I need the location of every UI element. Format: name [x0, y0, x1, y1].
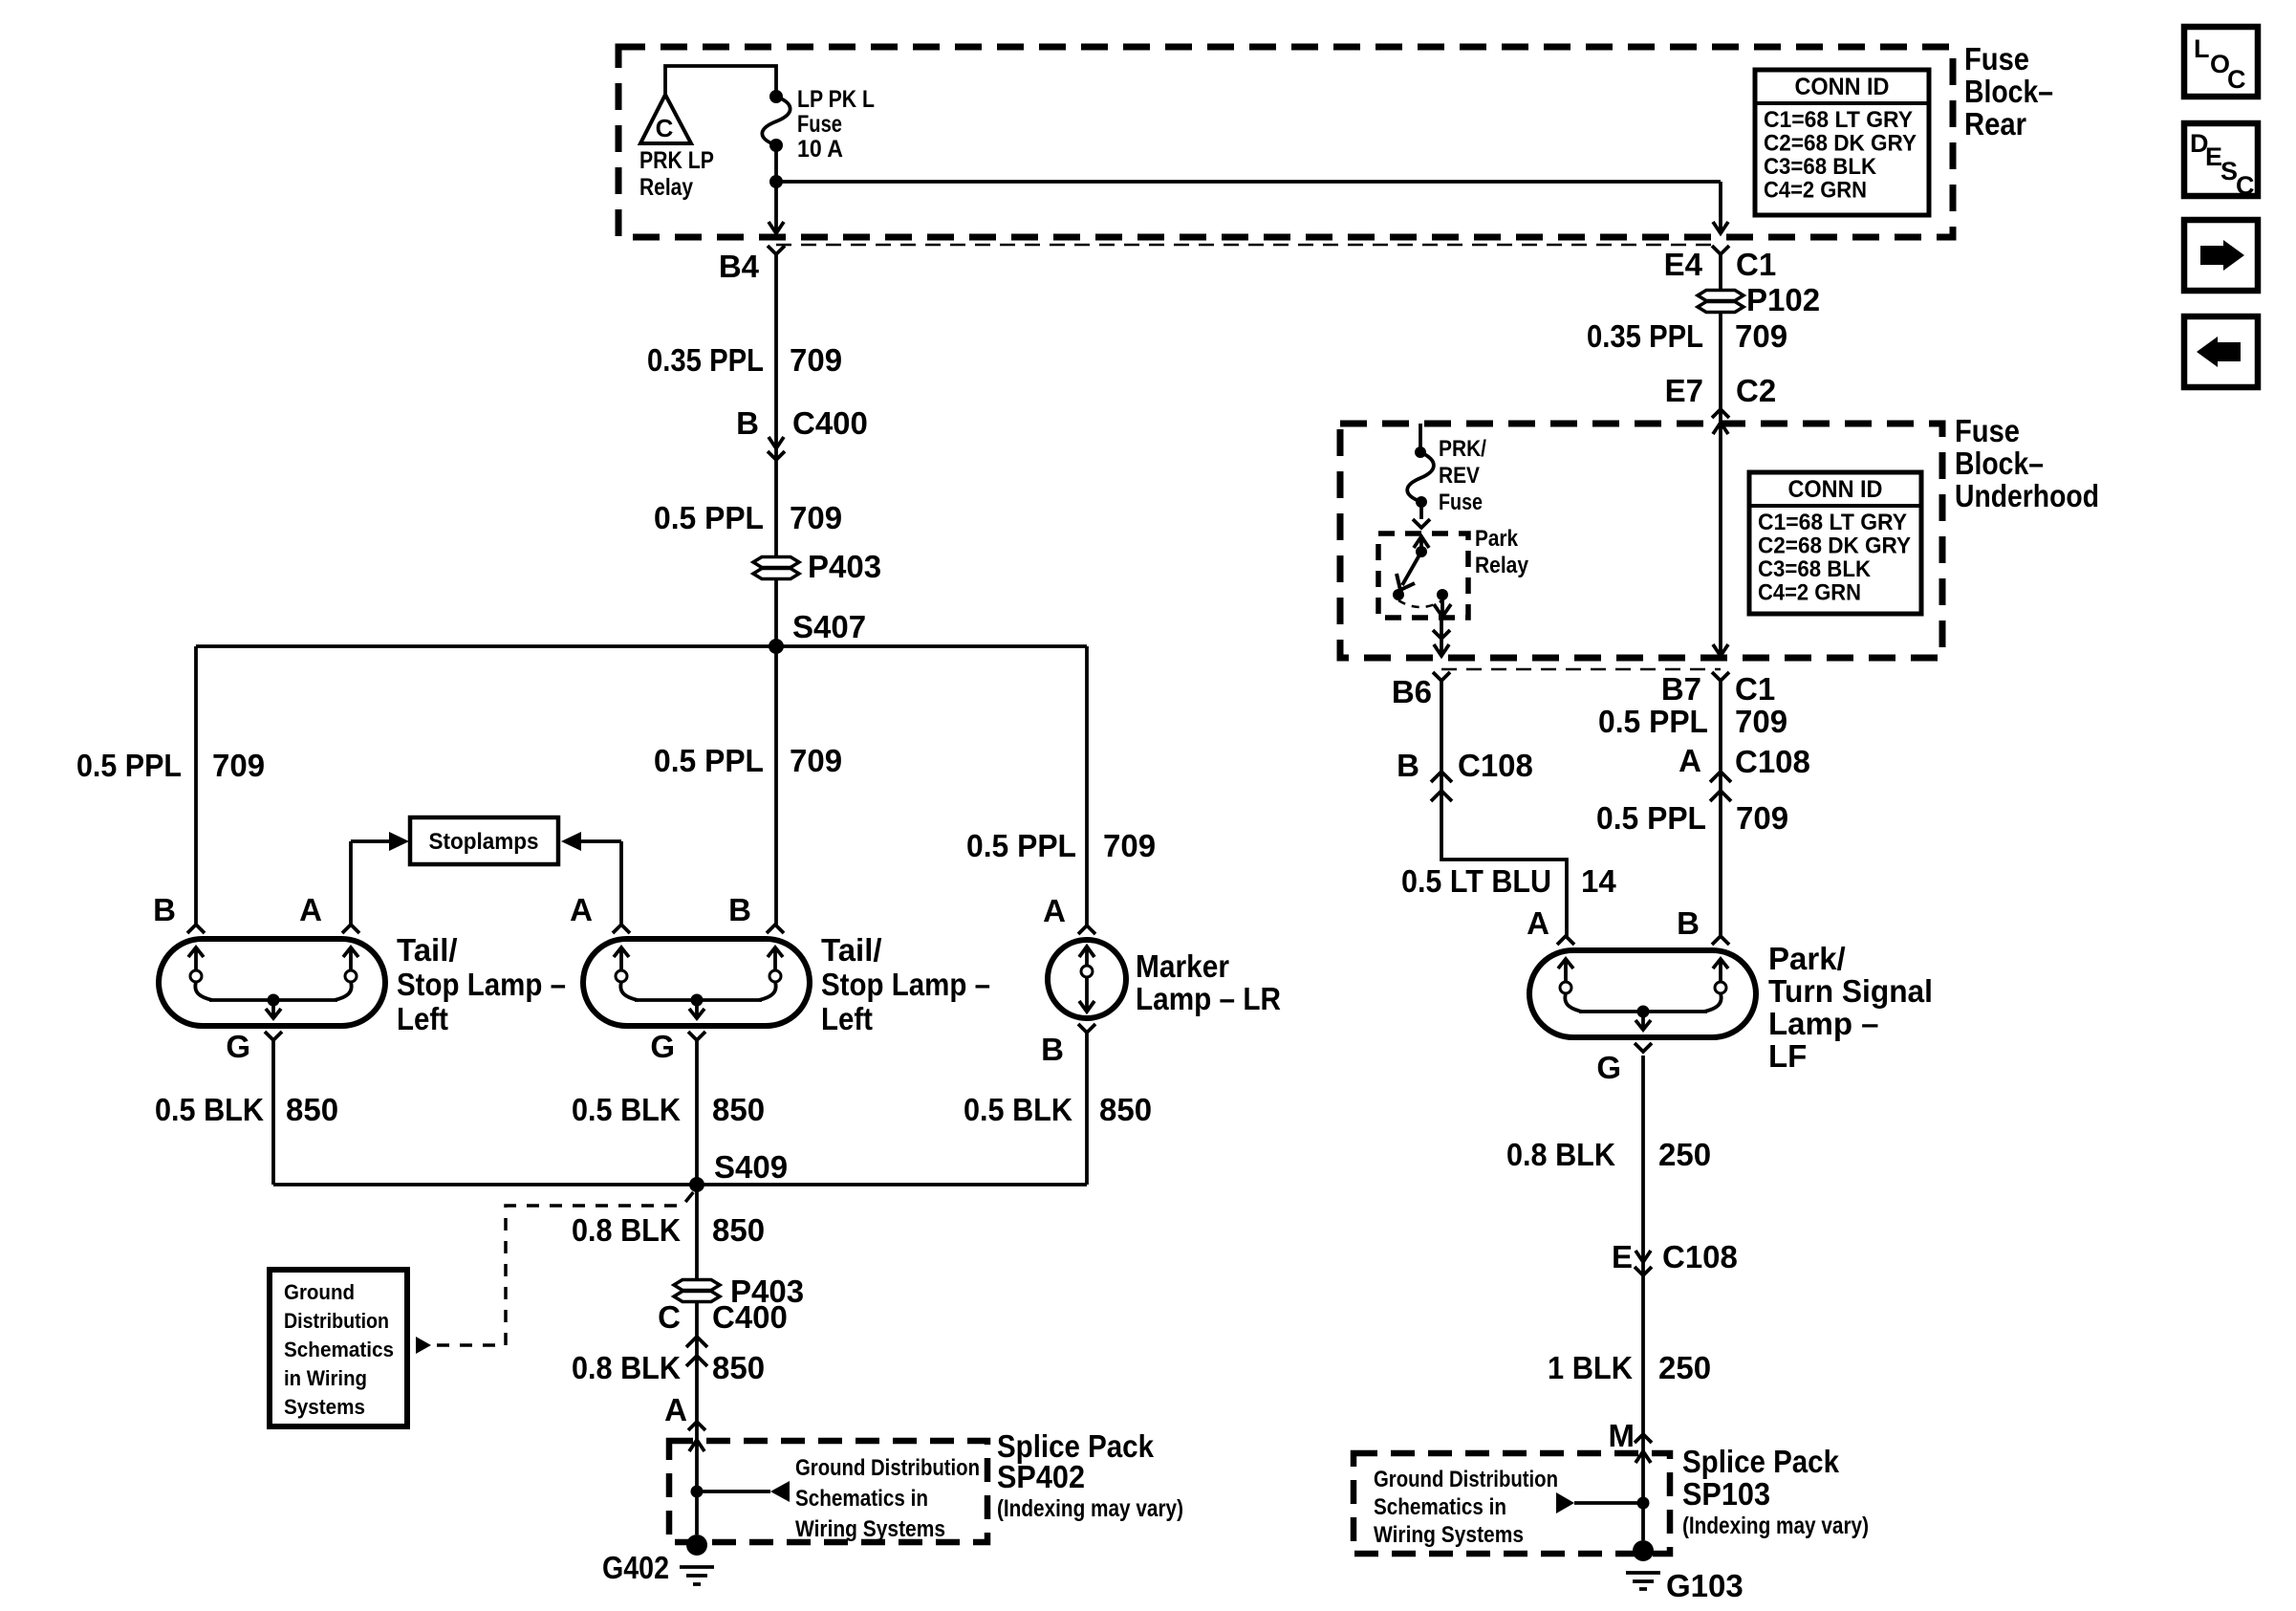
svg-text:Wiring Systems: Wiring Systems [795, 1516, 945, 1542]
svg-text:L: L [2194, 34, 2210, 63]
svg-text:C: C [2236, 171, 2255, 200]
svg-text:P403: P403 [808, 549, 881, 584]
svg-text:CONN ID: CONN ID [1795, 74, 1890, 100]
svg-text:in Wiring: in Wiring [284, 1366, 367, 1390]
svg-text:(Indexing may vary): (Indexing may vary) [997, 1495, 1183, 1522]
svg-text:Splice Pack: Splice Pack [1682, 1444, 1840, 1479]
svg-text:709: 709 [1103, 828, 1156, 863]
svg-text:14: 14 [1581, 863, 1616, 899]
svg-text:0.5 PPL: 0.5 PPL [76, 748, 182, 783]
svg-text:A: A [299, 892, 322, 927]
svg-text:C1: C1 [1735, 671, 1775, 707]
svg-text:C: C [656, 114, 674, 142]
svg-text:Schematics: Schematics [284, 1338, 394, 1361]
svg-text:C4=2 GRN: C4=2 GRN [1758, 580, 1861, 606]
svg-text:0.8 BLK: 0.8 BLK [1506, 1137, 1615, 1172]
svg-text:0.35 PPL: 0.35 PPL [647, 342, 764, 378]
svg-text:G103: G103 [1666, 1568, 1744, 1603]
svg-text:0.8 BLK: 0.8 BLK [572, 1350, 681, 1385]
svg-text:Marker: Marker [1136, 948, 1229, 984]
svg-text:Ground Distribution: Ground Distribution [1374, 1467, 1558, 1492]
svg-text:LP PK L: LP PK L [797, 86, 875, 113]
svg-text:0.5 BLK: 0.5 BLK [572, 1092, 681, 1127]
svg-text:E4: E4 [1664, 247, 1703, 282]
svg-text:0.5 PPL: 0.5 PPL [1596, 800, 1706, 836]
svg-text:Stop Lamp –: Stop Lamp – [397, 967, 566, 1002]
svg-text:LF: LF [1768, 1038, 1807, 1074]
svg-text:C2=68 DK GRY: C2=68 DK GRY [1758, 533, 1911, 559]
svg-text:Block–: Block– [1955, 446, 2044, 481]
svg-text:S409: S409 [714, 1149, 788, 1185]
svg-text:Tail/: Tail/ [397, 932, 458, 968]
svg-text:0.5 PPL: 0.5 PPL [966, 828, 1076, 863]
svg-text:Relay: Relay [1475, 553, 1529, 578]
svg-text:850: 850 [712, 1092, 765, 1127]
svg-text:Wiring Systems: Wiring Systems [1374, 1522, 1524, 1548]
svg-text:250: 250 [1658, 1137, 1711, 1172]
svg-text:Fuse: Fuse [1955, 413, 2020, 448]
svg-text:(Indexing may vary): (Indexing may vary) [1682, 1513, 1869, 1539]
svg-text:Block–: Block– [1964, 74, 2053, 109]
svg-text:850: 850 [712, 1350, 765, 1385]
svg-text:709: 709 [1735, 704, 1787, 739]
svg-text:Fuse: Fuse [1964, 41, 2029, 76]
svg-text:C: C [2227, 65, 2246, 94]
svg-text:E7: E7 [1665, 373, 1703, 408]
svg-text:10 A: 10 A [797, 136, 843, 163]
svg-text:Park: Park [1475, 526, 1519, 552]
svg-text:SP103: SP103 [1682, 1476, 1770, 1512]
svg-text:M: M [1609, 1418, 1635, 1453]
svg-text:1 BLK: 1 BLK [1548, 1350, 1633, 1385]
svg-text:G: G [1596, 1050, 1621, 1085]
svg-text:Left: Left [821, 1001, 873, 1036]
svg-text:B4: B4 [719, 249, 760, 284]
svg-text:0.5 PPL: 0.5 PPL [654, 743, 764, 778]
svg-text:B7: B7 [1661, 671, 1701, 707]
svg-text:Schematics in: Schematics in [1374, 1494, 1506, 1520]
svg-text:CONN ID: CONN ID [1788, 476, 1883, 503]
svg-text:C4=2 GRN: C4=2 GRN [1764, 178, 1867, 204]
svg-text:0.5 PPL: 0.5 PPL [1598, 704, 1708, 739]
svg-text:Fuse: Fuse [797, 111, 842, 138]
svg-text:C108: C108 [1662, 1239, 1738, 1274]
svg-text:Ground: Ground [284, 1280, 355, 1304]
svg-text:Rear: Rear [1964, 106, 2026, 142]
svg-text:709: 709 [1736, 800, 1788, 836]
svg-text:0.5 BLK: 0.5 BLK [155, 1092, 264, 1127]
svg-text:850: 850 [286, 1092, 338, 1127]
svg-text:A: A [1527, 905, 1549, 941]
svg-text:Turn Signal: Turn Signal [1768, 973, 1933, 1009]
svg-text:850: 850 [1099, 1092, 1152, 1127]
svg-text:C1=68 LT GRY: C1=68 LT GRY [1758, 510, 1907, 535]
svg-text:709: 709 [1735, 318, 1787, 354]
svg-text:Park/: Park/ [1768, 941, 1846, 976]
svg-text:C108: C108 [1458, 748, 1533, 783]
svg-text:E: E [1612, 1239, 1633, 1274]
svg-text:S407: S407 [792, 609, 866, 644]
svg-text:B: B [728, 892, 751, 927]
svg-text:B: B [1397, 748, 1419, 783]
svg-text:0.5 PPL: 0.5 PPL [654, 500, 764, 535]
svg-text:Tail/: Tail/ [821, 932, 882, 968]
svg-text:Stop Lamp –: Stop Lamp – [821, 967, 990, 1002]
svg-text:A: A [664, 1392, 687, 1427]
svg-text:A: A [570, 892, 593, 927]
svg-text:Underhood: Underhood [1955, 478, 2099, 513]
svg-text:B: B [736, 405, 759, 441]
svg-text:C400: C400 [712, 1299, 788, 1335]
svg-text:Distribution: Distribution [284, 1309, 389, 1333]
svg-text:0.35 PPL: 0.35 PPL [1587, 318, 1703, 354]
svg-text:B6: B6 [1392, 674, 1432, 709]
svg-text:B: B [153, 892, 176, 927]
svg-text:C400: C400 [792, 405, 868, 441]
svg-text:709: 709 [790, 500, 842, 535]
svg-text:C1: C1 [1736, 247, 1776, 282]
svg-text:709: 709 [212, 748, 265, 783]
svg-text:Fuse: Fuse [1439, 490, 1483, 515]
svg-text:P102: P102 [1746, 282, 1820, 317]
svg-text:Left: Left [397, 1001, 448, 1036]
svg-text:SP402: SP402 [997, 1459, 1085, 1494]
svg-text:PRK LP: PRK LP [639, 147, 714, 174]
svg-text:0.5 BLK: 0.5 BLK [964, 1092, 1072, 1127]
svg-text:0.8 BLK: 0.8 BLK [572, 1212, 681, 1248]
svg-text:G402: G402 [602, 1550, 669, 1585]
svg-text:C2: C2 [1736, 373, 1776, 408]
svg-text:C3=68 BLK: C3=68 BLK [1764, 154, 1877, 180]
svg-text:C3=68 BLK: C3=68 BLK [1758, 556, 1872, 582]
svg-text:REV: REV [1439, 463, 1480, 489]
svg-text:Systems: Systems [284, 1395, 365, 1419]
svg-text:709: 709 [790, 342, 842, 378]
svg-text:C1=68 LT GRY: C1=68 LT GRY [1764, 107, 1913, 133]
svg-text:A: A [1679, 743, 1701, 778]
svg-text:Lamp – LR: Lamp – LR [1136, 981, 1281, 1016]
svg-text:Lamp –: Lamp – [1768, 1006, 1879, 1041]
svg-text:250: 250 [1658, 1350, 1711, 1385]
svg-text:C2=68 DK GRY: C2=68 DK GRY [1764, 131, 1917, 157]
svg-text:PRK/: PRK/ [1439, 436, 1486, 462]
svg-text:Relay: Relay [639, 174, 693, 201]
svg-text:0.5 LT BLU: 0.5 LT BLU [1401, 863, 1551, 899]
svg-text:Stoplamps: Stoplamps [429, 829, 539, 855]
svg-text:B: B [1041, 1032, 1064, 1067]
svg-text:850: 850 [712, 1212, 765, 1248]
svg-text:G: G [226, 1029, 250, 1064]
svg-text:A: A [1043, 893, 1066, 928]
svg-text:C108: C108 [1735, 744, 1810, 779]
svg-text:709: 709 [790, 743, 842, 778]
svg-text:Schematics in: Schematics in [795, 1486, 928, 1512]
svg-text:Ground Distribution: Ground Distribution [795, 1455, 980, 1481]
svg-text:C: C [658, 1299, 681, 1335]
svg-text:B: B [1677, 905, 1700, 941]
svg-text:G: G [650, 1029, 675, 1064]
